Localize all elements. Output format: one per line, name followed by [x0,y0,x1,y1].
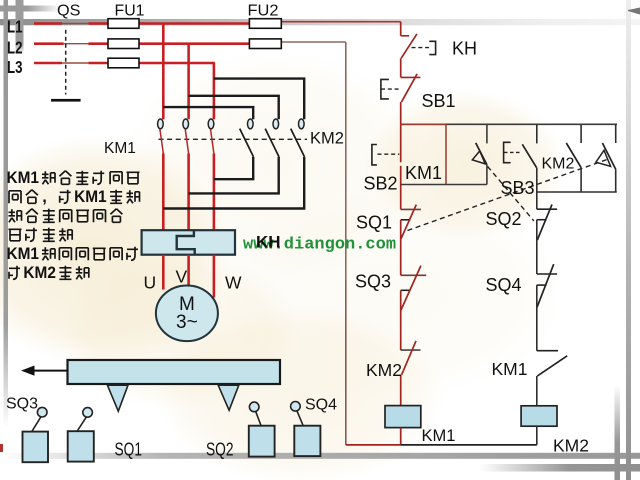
svg-text:SQ3: SQ3 [355,272,391,292]
svg-text:3~: 3~ [176,312,198,333]
svg-text:V: V [176,267,188,287]
svg-text:L2: L2 [7,37,23,57]
svg-text:KM1: KM1 [104,140,136,157]
svg-text:KM2: KM2 [542,156,575,173]
svg-text:L1: L1 [7,17,23,37]
svg-text:QS: QS [57,3,81,20]
svg-text:SQ2: SQ2 [206,439,234,460]
svg-text:U: U [144,273,157,293]
svg-text:FU1: FU1 [115,3,145,20]
svg-text:KM1: KM1 [74,187,107,206]
svg-text:KH: KH [256,233,281,252]
svg-text:KM1: KM1 [492,359,528,379]
svg-text:KM1: KM1 [405,163,442,183]
svg-text:KM2: KM2 [366,360,402,380]
svg-text:SB3: SB3 [501,178,535,198]
svg-text:SQ1: SQ1 [115,439,143,460]
svg-text:SB2: SB2 [364,174,398,194]
svg-text:W: W [225,273,242,293]
svg-text:L3: L3 [7,57,23,77]
svg-text:SB1: SB1 [422,91,456,111]
svg-text:SQ1: SQ1 [356,213,392,233]
svg-text:KH: KH [452,39,477,59]
svg-text:SQ3: SQ3 [6,396,38,413]
svg-text:KM1: KM1 [422,427,456,445]
svg-text:KM1: KM1 [7,244,40,263]
svg-text:SQ4: SQ4 [486,275,522,295]
svg-text:SQ2: SQ2 [486,209,522,229]
svg-text:SQ4: SQ4 [305,397,337,414]
svg-text:KM2: KM2 [23,263,56,282]
svg-text:KM1: KM1 [7,168,40,187]
svg-text:KM2: KM2 [310,129,344,147]
svg-text:,: , [42,188,47,206]
svg-text:KM2: KM2 [553,436,589,456]
svg-text:FU2: FU2 [248,3,279,20]
